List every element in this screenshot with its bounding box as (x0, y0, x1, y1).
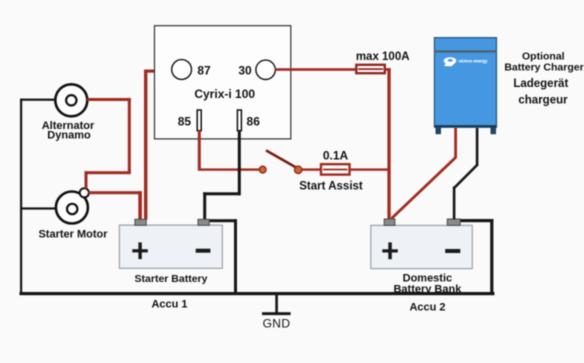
wire: pin 85 to start assist switch (red) (198, 131, 260, 171)
wire: starter motor to ground bus (20, 207, 56, 209)
battery charger PS1 (blue Victron unit) (435, 38, 497, 135)
wire: Cyrix 87 to starter battery plus (red) (144, 70, 173, 220)
fuse F2 0.1A (321, 164, 350, 174)
node: starter motor B+ terminal (80, 188, 89, 197)
symbol: plus sign B2 (382, 242, 398, 259)
wire: domestic battery minus to chassis (black) (459, 219, 493, 293)
svg-text:Accu 2: Accu 2 (409, 302, 445, 314)
svg-text:30: 30 (238, 64, 252, 78)
label Domestic Battery Bank (393, 273, 462, 296)
wire: starter battery minus to chassis (black) (208, 219, 237, 293)
svg-text:Start Assist: Start Assist (299, 181, 363, 193)
label 85 (178, 115, 192, 129)
switch S1 Start Assist (259, 150, 302, 173)
svg-text:victron energy: victron energy (459, 58, 488, 63)
svg-text:0.1A: 0.1A (323, 148, 349, 162)
label 86 (247, 115, 261, 129)
label 30 (238, 64, 252, 78)
svg-text:Battery Charger: Battery Charger (504, 62, 583, 74)
label Alternator Dynamo (42, 120, 95, 142)
pin 85 blade (197, 110, 201, 131)
wire: pin 86 to starter battery minus (black) (203, 131, 241, 220)
svg-text:Battery Bank: Battery Bank (393, 284, 462, 296)
battery B2 Domestic Battery Bank box (371, 225, 473, 268)
label max 100A (356, 51, 410, 63)
wire: alternator output (red) to starter motor terminal (85, 98, 132, 189)
svg-text:87: 87 (197, 64, 211, 78)
terminal: domestic battery minus post (447, 219, 460, 225)
wire: fuse F1 to domestic battery plus (red) (385, 68, 391, 219)
battery B1 Starter Battery box (119, 225, 222, 268)
terminal: starter battery minus post (198, 219, 209, 225)
symbol: minus sign B2 (445, 249, 460, 253)
symbol: plus sign B1 (132, 242, 148, 259)
wire: chassis bottom line (20, 292, 495, 295)
terminal: domestic battery plus post (384, 219, 395, 225)
wire: charger plus to domestic battery plus (red) (392, 128, 458, 219)
starter motor M1 symbol (56, 192, 88, 224)
svg-text:Starter Motor: Starter Motor (38, 229, 108, 241)
fuse F1 max 100A (356, 65, 385, 73)
label Starter Battery (135, 273, 208, 285)
terminal: starter battery plus post (135, 219, 146, 225)
label 87 (197, 64, 211, 78)
wire: starter motor terminal to starter battery plus (red) (89, 191, 142, 220)
svg-text:Dynamo: Dynamo (47, 130, 91, 142)
svg-text:Ladegerät: Ladegerät (513, 78, 568, 90)
label Accu 1 (151, 298, 187, 310)
alternator G1 symbol (55, 84, 87, 116)
wire: left ground vertical (20, 99, 22, 294)
svg-text:Cyrix-i 100: Cyrix-i 100 (194, 87, 255, 101)
svg-text:85: 85 (178, 115, 192, 129)
svg-text:Starter Battery: Starter Battery (135, 273, 208, 285)
pin 86 blade (237, 110, 241, 131)
svg-text:86: 86 (247, 115, 261, 129)
terminal 30 circle (256, 60, 275, 79)
label Optional Battery Charger Ladegeraet chargeur (504, 51, 583, 107)
terminal 87 circle (172, 60, 192, 80)
wire: Cyrix 30 to fuse F1 (red) (275, 68, 358, 71)
ground GND symbol (262, 294, 291, 315)
svg-text:chargeur: chargeur (518, 94, 568, 106)
logo victron energy (444, 57, 488, 66)
wire: alternator to ground bus (20, 99, 55, 101)
label Starter Motor (38, 229, 108, 241)
label 0.1A (323, 148, 349, 162)
label Start Assist (299, 181, 363, 193)
symbol: minus sign B1 (196, 249, 211, 253)
svg-text:GND: GND (263, 317, 291, 331)
relay U1 Cyrix-i 100 box (155, 26, 291, 139)
svg-text:Accu 1: Accu 1 (151, 298, 187, 310)
label Cyrix-i 100 (194, 87, 255, 101)
svg-text:max 100A: max 100A (356, 51, 410, 63)
wire: switch to fuse F2 to junction (red) (302, 168, 391, 170)
wire: charger minus to domestic battery minus (black) (453, 128, 479, 220)
label GND (263, 317, 291, 331)
label Accu 2 (409, 302, 445, 314)
